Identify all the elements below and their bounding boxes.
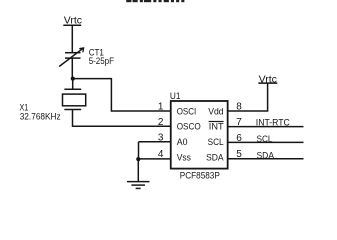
svg-text:Vdd: Vdd bbox=[208, 106, 223, 116]
svg-text:INT: INT bbox=[209, 122, 224, 132]
svg-text:A0: A0 bbox=[177, 137, 188, 147]
wire node A to pin 1 OSCI bbox=[73, 79, 171, 111]
svg-text:U1: U1 bbox=[170, 91, 181, 102]
svg-text:Vrtc: Vrtc bbox=[259, 73, 277, 85]
IC U1 body (PCF8583P) bbox=[171, 101, 228, 169]
wire node A to crystal bbox=[72, 79, 74, 90]
svg-text:2: 2 bbox=[158, 117, 164, 128]
wire Vrtc to CT1 bbox=[71, 25, 73, 53]
capacitor CT1 5-25pF (trimmer) bbox=[59, 47, 114, 67]
svg-text:OSCI: OSCI bbox=[177, 106, 197, 116]
wire pin 3 to node B bbox=[138, 142, 140, 159]
svg-text:5-25pF: 5-25pF bbox=[89, 56, 114, 67]
svg-text:INT-RTC: INT-RTC bbox=[256, 118, 290, 129]
svg-text:4: 4 bbox=[158, 149, 164, 160]
wire pin 6 net SCL bbox=[228, 134, 304, 145]
wire CT1 to node A bbox=[71, 58, 73, 79]
wire pin 3 A0 stub bbox=[139, 141, 171, 143]
wire pin 8 to Vrtc bbox=[228, 83, 268, 111]
cropped title text bbox=[126, 0, 184, 2]
svg-text:SDA: SDA bbox=[206, 153, 224, 163]
node B (junction dot) bbox=[136, 157, 140, 161]
crystal X1 32.768KHz bbox=[20, 89, 86, 122]
svg-text:SCL: SCL bbox=[208, 137, 224, 147]
power Vrtc (left) bbox=[63, 14, 82, 26]
svg-text:OSCO: OSCO bbox=[177, 122, 201, 132]
pin label INT (active low) bbox=[209, 122, 224, 132]
svg-text:PCF8583P: PCF8583P bbox=[180, 171, 220, 182]
wire crystal to pin 2 OSCO bbox=[73, 110, 171, 127]
ground bbox=[127, 159, 150, 188]
node A (junction dot) bbox=[71, 77, 75, 81]
wire pin 5 net SDA bbox=[228, 151, 304, 162]
wire pin 7 net INT-RTC bbox=[228, 118, 304, 129]
svg-text:3: 3 bbox=[158, 132, 164, 143]
svg-text:32.768KHz: 32.768KHz bbox=[20, 112, 61, 123]
svg-text:SDA: SDA bbox=[257, 151, 275, 162]
power Vrtc (right) bbox=[258, 73, 277, 85]
svg-text:1: 1 bbox=[158, 102, 164, 113]
svg-text:SCL: SCL bbox=[257, 134, 273, 145]
svg-text:Vss: Vss bbox=[177, 153, 192, 163]
wire pin 4 Vss stub bbox=[138, 158, 171, 160]
